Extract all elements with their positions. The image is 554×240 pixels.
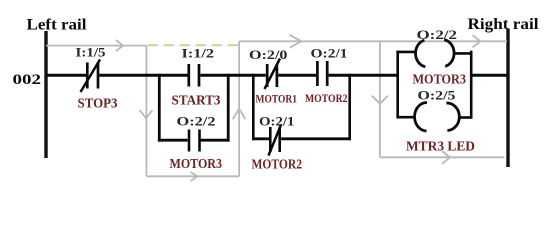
gray arrow right on box1 bottom — [191, 172, 198, 181]
branch1 lower wire right — [200, 139, 229, 142]
branch1 left vertical — [158, 74, 161, 142]
svg-text:O:2/2: O:2/2 — [417, 27, 458, 42]
coil box right vertical — [470, 51, 473, 119]
coil O:2/5 right wire — [459, 116, 473, 119]
svg-text:I:1/5: I:1/5 — [76, 45, 106, 59]
contact O:2/1 MOTOR2 NO — [316, 61, 319, 86]
contact O:2/2 seal NO — [188, 130, 191, 152]
contact STOP3 I:1/5 NC — [86, 63, 89, 89]
wire O:2/1 to coil box — [329, 74, 398, 77]
black circuit — [46, 40, 507, 156]
svg-text:MOTOR3: MOTOR3 — [413, 73, 467, 88]
svg-text:MOTOR2: MOTOR2 — [252, 158, 303, 173]
contact START3 I:1/2 NO — [187, 64, 190, 87]
svg-text:MTR3 LED: MTR3 LED — [406, 140, 475, 155]
wire rail to STOP3 — [46, 74, 86, 77]
gray box1 left vertical — [145, 46, 147, 177]
gray arrow down on output loop — [372, 96, 388, 104]
coil O:2/2 left wire — [396, 51, 414, 54]
gray arrow right end — [473, 35, 481, 47]
branch2 right vertical — [348, 74, 351, 140]
svg-text:002: 002 — [13, 72, 42, 88]
svg-text:MOTOR1: MOTOR1 — [256, 92, 298, 106]
coil box left vertical — [396, 51, 399, 119]
svg-text:O:2/1: O:2/1 — [259, 114, 295, 129]
gray arrow right on output bottom — [442, 151, 450, 164]
gray arrow down on box1 left — [140, 110, 153, 118]
wire STOP3 to START3 — [99, 74, 187, 77]
coil O:2/2 right wire — [456, 52, 473, 55]
svg-text:STOP3: STOP3 — [78, 96, 118, 111]
svg-text:O:2/0: O:2/0 — [249, 47, 288, 62]
right rail — [506, 29, 509, 167]
branch1 right vertical — [227, 74, 230, 142]
svg-text:Left rail: Left rail — [27, 17, 88, 34]
svg-text:START3: START3 — [172, 93, 221, 108]
branch2 left vertical — [252, 74, 255, 140]
gray box1 right vertical — [238, 41, 240, 176]
coil O:2/2 left arc — [416, 40, 426, 67]
svg-text:MOTOR2: MOTOR2 — [305, 91, 348, 105]
svg-text:O:2/2: O:2/2 — [177, 113, 216, 128]
svg-text:O:2/5: O:2/5 — [418, 87, 457, 102]
branch2 lower wire left — [252, 137, 269, 140]
wire START3 to O:2/0 — [200, 74, 265, 77]
svg-text:I:1/2: I:1/2 — [182, 47, 215, 61]
gray flow line top-left segment — [46, 45, 146, 47]
gray flow line top-right segment — [239, 40, 507, 42]
svg-text:O:2/1: O:2/1 — [311, 45, 348, 60]
contact O:2/1 lower MOTOR2 NC — [269, 127, 272, 152]
branch1 lower wire left — [158, 139, 188, 142]
gray arrow right mid — [290, 35, 302, 48]
coil O:2/5 right arc — [446, 103, 459, 131]
wire O:2/0 to O:2/1 — [278, 74, 316, 77]
gray box1 bottom — [146, 175, 239, 177]
wire coil box to right rail — [471, 74, 507, 77]
coil O:2/2 right arc — [444, 40, 454, 67]
khaki dashed top of seal-in box — [148, 44, 239, 46]
gray arrow up on box1 right — [233, 109, 246, 120]
gray output-loop left vertical — [379, 41, 381, 157]
gray arrow right on top-left segment — [116, 40, 123, 51]
svg-text:MOTOR3: MOTOR3 — [170, 157, 223, 172]
left rail — [44, 31, 47, 158]
branch2 lower wire right — [281, 137, 351, 140]
coil O:2/5 left wire — [396, 116, 415, 119]
coil O:2/5 left arc — [415, 102, 427, 131]
svg-text:Right rail: Right rail — [468, 16, 540, 33]
gray output-loop bottom — [380, 156, 505, 158]
contact O:2/0 MOTOR1 NC — [266, 64, 269, 87]
